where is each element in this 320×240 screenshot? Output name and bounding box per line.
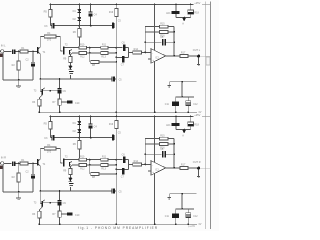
- wire R18 down': [176, 126, 191, 129]
- capacitor C3': [44, 135, 54, 140]
- label OUT L: [193, 49, 201, 52]
- wire collector to R4: [40, 35, 44, 37]
- wire V- column': [154, 173, 156, 224]
- node A junction': [183, 129, 185, 131]
- wire R19 to bias node': [115, 129, 117, 138]
- wire C8 to output column: [166, 41, 174, 43]
- wire ground rail': [39, 223, 197, 225]
- svg-text:-: -: [152, 51, 153, 55]
- wire C1 to R1': [16, 163, 20, 165]
- wire return to supply line': [181, 194, 183, 209]
- resistor R17': [180, 164, 188, 170]
- wire T3 base row': [43, 202, 58, 204]
- wire rail to R5: [49, 5, 51, 10]
- wire jack ground: [197, 58, 200, 66]
- wire C2 to gnd line: [32, 66, 34, 80]
- node supply junction': [181, 208, 183, 210]
- transistor T3': [34, 200, 45, 210]
- wire T3 base row: [43, 90, 58, 92]
- wire bus to C9: [59, 79, 61, 88]
- capacitor C7': [121, 168, 125, 179]
- wire return line: [169, 81, 196, 83]
- wire supply line': [176, 208, 194, 210]
- wire R5 to C3: [50, 17, 51, 26]
- wire R17 to jack: [188, 55, 197, 57]
- node ground-line junction': [18, 191, 20, 193]
- resistor R3: [32, 99, 41, 106]
- wire R14 to opamp: [141, 51, 151, 53]
- node A arrow': [182, 130, 186, 137]
- label OUT R': [193, 161, 201, 164]
- resistor R3': [32, 211, 41, 218]
- wire out to bus': [200, 167, 210, 169]
- wire fb row1 right: [168, 26, 174, 28]
- svg-text:R17: R17: [181, 52, 186, 55]
- resistor R4: [44, 32, 56, 41]
- wire T2 emitter down': [69, 166, 71, 168]
- node row1 tap': [89, 159, 91, 161]
- capacitor C12': [186, 209, 198, 224]
- wire taps vertical: [89, 48, 91, 62]
- node supply junction: [181, 96, 183, 98]
- wire fb row1': [145, 138, 159, 140]
- capacitor C5: [112, 20, 121, 28]
- wire LD1 down: [175, 14, 177, 18]
- capacitor T2 base bar': [63, 159, 65, 167]
- wire D3 to emitter line': [69, 187, 71, 191]
- node emitter branch: [39, 78, 41, 80]
- wire R3 to rail: [38, 98, 40, 113]
- svg-text:1V2: 1V2: [47, 152, 52, 154]
- wire opamp out': [166, 167, 180, 169]
- capacitor C12: [186, 97, 198, 112]
- node rail R19 junction: [115, 4, 117, 6]
- wire R7 to rail: [59, 105, 61, 112]
- wire T1 emitter down': [39, 166, 41, 203]
- node A arrow: [182, 18, 186, 25]
- wire jack to C1: [4, 51, 12, 53]
- wire +25V rail': [50, 116, 193, 118]
- resistor R5': [44, 122, 52, 130]
- wire fb row2: [145, 31, 159, 33]
- node return junction': [181, 193, 183, 195]
- terminal output jack': [197, 167, 200, 170]
- transistor T1: [37, 47, 46, 54]
- connector input jack: [0, 50, 3, 53]
- wire +25V rail: [50, 4, 193, 6]
- wire V+ column': [154, 117, 156, 163]
- node C2 tap: [32, 51, 34, 53]
- node fb column junctions': [173, 143, 175, 155]
- diode D2: [73, 17, 82, 21]
- transistor T2': [65, 156, 72, 167]
- wire bias to divider column: [115, 26, 117, 48]
- wire feedback column': [144, 139, 146, 165]
- wire supply bus line 2: [210, 2, 212, 230]
- wire jack ground': [197, 170, 200, 178]
- resistor R10': [79, 156, 87, 161]
- wire divider column crossover: [115, 112, 117, 117]
- wire fb row1 right': [168, 138, 174, 140]
- node A junction: [183, 17, 185, 19]
- resistor R12': [79, 164, 87, 171]
- resistor R15: [160, 22, 168, 28]
- capacitor C13': [112, 188, 122, 193]
- node divider junctions: [115, 47, 117, 63]
- wire column to C6': [116, 159, 122, 161]
- svg-text:R10: R10: [80, 156, 85, 158]
- svg-text:R19: R19: [109, 12, 114, 14]
- capacitor C9': [58, 200, 67, 205]
- wire row1 to column: [108, 47, 116, 49]
- svg-text:R11: R11: [102, 43, 107, 46]
- resistor R11': [101, 155, 108, 161]
- capacitor C2: [26, 59, 36, 67]
- connector input jack': [0, 162, 3, 165]
- node divider junctions': [115, 159, 117, 175]
- wire rail to bus': [202, 116, 211, 118]
- node base row tap': [49, 202, 51, 204]
- wire bias to R6': [78, 138, 80, 141]
- ground input': [16, 192, 21, 200]
- wire C6 to node: [125, 48, 128, 53]
- wire rail to C4: [90, 5, 92, 12]
- wire R5 to C3': [50, 129, 51, 138]
- svg-text:1V2: 1V2: [47, 40, 52, 42]
- wire C4 to bias line: [90, 17, 92, 26]
- wire C7 to node': [125, 164, 129, 169]
- wire R2 to gnd line': [18, 182, 20, 192]
- wire D2 to bias node: [78, 21, 80, 26]
- wire rail to R5': [49, 117, 51, 122]
- diode D2': [73, 129, 82, 133]
- svg-text:OUT L: OUT L: [193, 49, 201, 52]
- wire taps vertical': [89, 160, 91, 174]
- svg-text:C12: C12: [193, 104, 198, 106]
- wire T1 collector up: [39, 36, 41, 47]
- diode D1': [73, 121, 82, 125]
- wire bias to divider column': [115, 138, 117, 160]
- node bus tap': [59, 190, 61, 192]
- node C4-bias junction: [90, 25, 92, 27]
- wire emitter bus: [40, 78, 111, 80]
- wire rail to R18': [190, 117, 192, 122]
- wire rail to bus: [202, 4, 211, 6]
- node return junction: [181, 81, 183, 83]
- node row2 tap': [89, 164, 91, 166]
- capacitor C10': [61, 212, 80, 217]
- label 0V': [199, 224, 202, 226]
- wire jack to C1': [4, 163, 12, 165]
- capacitor C9: [58, 88, 67, 93]
- svg-text:R12: R12: [80, 168, 85, 170]
- wire fb row2 right': [168, 143, 174, 145]
- svg-text:R17: R17: [181, 164, 186, 167]
- resistor R6: [73, 29, 81, 38]
- transistor T3: [34, 88, 45, 98]
- wire row2 mid': [87, 164, 101, 166]
- wire R9 to D3': [69, 175, 71, 178]
- wire R18 down: [176, 14, 191, 17]
- wire R1 to T1 base': [28, 163, 37, 165]
- svg-text:+25V: +25V: [194, 113, 200, 117]
- svg-text:fig.1 - PHONO MM PREAMPLIFIER: fig.1 - PHONO MM PREAMPLIFIER: [78, 226, 158, 230]
- wire fb row2': [145, 143, 159, 145]
- node inverting input': [144, 164, 146, 166]
- capacitor C1: [12, 49, 16, 54]
- resistor R14': [133, 160, 142, 166]
- resistor R1: [20, 47, 28, 53]
- label +25V: [194, 1, 200, 5]
- resistor R1': [20, 159, 28, 165]
- resistor R16: [160, 31, 168, 38]
- wire supply bus line 1: [204, 2, 206, 230]
- wire R8 to column: [99, 61, 116, 63]
- wire row2 to column: [108, 52, 116, 54]
- resistor R6': [73, 141, 81, 150]
- resistor R4': [44, 144, 56, 153]
- wire R1 to T1 base: [28, 51, 37, 53]
- resistor R18: [188, 10, 200, 15]
- resistor R13': [101, 164, 108, 171]
- capacitor C6': [122, 154, 126, 163]
- svg-text:+25V: +25V: [194, 1, 200, 5]
- wire R4 to T2 base': [56, 148, 63, 163]
- svg-text:0V: 0V: [199, 224, 202, 226]
- resistor R14: [133, 48, 142, 54]
- wire C2 to gnd line': [32, 178, 34, 192]
- wire return to supply line: [181, 82, 183, 97]
- capacitor C13: [112, 76, 122, 81]
- capacitor C4': [89, 124, 98, 129]
- resistor R12: [79, 52, 87, 59]
- wire D2 to bias node': [78, 133, 80, 138]
- ground D3 bars: [69, 72, 74, 74]
- svg-text:R12: R12: [80, 56, 85, 58]
- wire out to bus: [200, 55, 210, 57]
- resistor R8 shunt: [91, 61, 99, 67]
- wire rail to D1': [78, 117, 80, 122]
- node bus tap: [59, 78, 61, 80]
- svg-text:LD1: LD1: [166, 124, 171, 127]
- capacitor C5': [112, 132, 121, 140]
- svg-text:R15: R15: [160, 22, 165, 25]
- capacitor C4: [89, 12, 98, 17]
- svg-text:C11: C11: [165, 104, 170, 106]
- wire T2 emitter down: [69, 54, 71, 56]
- resistor R9: [63, 57, 72, 63]
- svg-text:C10: C10: [75, 214, 80, 217]
- wire R6 to row: [78, 37, 80, 48]
- wire node to R14: [129, 51, 133, 53]
- wire LD1 down': [175, 126, 177, 130]
- svg-text:IN L: IN L: [1, 43, 6, 47]
- wire row1 mid: [87, 47, 101, 49]
- wire rail to R19: [115, 5, 117, 9]
- ground return': [168, 194, 171, 199]
- node diode-bias junction': [79, 137, 81, 139]
- wire fb cap line': [145, 153, 162, 155]
- wire column to C6: [116, 47, 122, 49]
- wire fb row1: [145, 26, 159, 28]
- svg-text:C11: C11: [165, 216, 170, 218]
- svg-text:R18: R18: [194, 124, 199, 127]
- wire rail to LD1': [175, 117, 177, 124]
- label IN R': [1, 155, 6, 159]
- wire column to C7: [116, 56, 122, 58]
- wire fb cap line: [145, 41, 162, 43]
- node row1 tap: [89, 47, 91, 49]
- wire T1 collector up': [39, 148, 41, 159]
- transistor T1': [37, 159, 46, 166]
- wire R14 to opamp': [141, 163, 151, 165]
- node output junction': [173, 167, 175, 169]
- wire C1 to R1: [16, 51, 20, 53]
- node feedback junctions: [144, 41, 146, 43]
- wire divider column': [115, 160, 117, 225]
- wire ground rail: [39, 111, 197, 113]
- resistor R8 shunt': [91, 173, 99, 179]
- wire R4 to T2 base: [56, 36, 63, 51]
- wire tap to R2: [18, 52, 20, 62]
- wire feedback column: [144, 27, 146, 53]
- wire R9 to D3: [69, 63, 71, 66]
- wire divider column: [115, 48, 117, 113]
- resistor R19: [109, 9, 118, 17]
- resistor R18': [188, 122, 200, 127]
- capacitor C1': [12, 161, 16, 166]
- svg-text:R13: R13: [101, 55, 106, 58]
- resistor R17: [180, 52, 188, 58]
- node R2 tap': [18, 163, 20, 165]
- wire opamp out: [166, 55, 180, 57]
- label IN L: [1, 43, 6, 47]
- capacitor C2': [26, 171, 36, 179]
- svg-text:R18: R18: [194, 12, 199, 15]
- node output junction: [173, 55, 175, 57]
- capacitor C11: [165, 97, 179, 112]
- node diode-bias junction: [79, 25, 81, 27]
- wire rail to C4': [90, 117, 92, 124]
- svg-text:C12: C12: [193, 216, 198, 218]
- op-amp IC1: [151, 49, 166, 64]
- wire T2 collector row: [65, 47, 79, 49]
- wire supply line: [176, 96, 194, 98]
- resistor R16': [160, 143, 168, 150]
- wire C7 to node: [125, 52, 129, 57]
- resistor R5: [44, 10, 52, 18]
- wire C8 to output column': [166, 153, 174, 155]
- resistor R19': [109, 121, 118, 129]
- resistor bus divider: [206, 57, 209, 65]
- svg-text:p-e/99: p-e/99: [188, 225, 195, 228]
- label +25V': [194, 113, 200, 117]
- wire V+ column: [154, 5, 156, 51]
- wire R17 to jack': [188, 167, 197, 169]
- wire R8 to column': [99, 173, 116, 175]
- resistor R10: [79, 44, 87, 49]
- wire noninverting stub: [148, 58, 151, 60]
- resistor R7': [52, 211, 61, 217]
- wire tap to R2': [18, 164, 20, 174]
- node R2 tap: [18, 51, 20, 53]
- wire noninverting stub': [148, 170, 151, 172]
- diode D3: [69, 66, 73, 70]
- ground D3 bars': [69, 184, 74, 186]
- wire C6 to node': [125, 160, 128, 165]
- op-amp IC1': [151, 161, 166, 176]
- diode D1: [73, 9, 82, 13]
- node C2 tap': [32, 163, 34, 165]
- wire T1 emitter down: [39, 54, 41, 91]
- node rail junctions: [50, 4, 192, 6]
- wire node to R14': [129, 163, 133, 165]
- resistor R11: [101, 43, 108, 49]
- wire bus to C9': [59, 191, 61, 200]
- capacitor T2 base bar: [63, 47, 65, 55]
- node C4-bias junction': [90, 137, 92, 139]
- transistor T2: [65, 44, 72, 55]
- svg-text:LD1: LD1: [166, 12, 171, 15]
- node inverting input: [144, 52, 146, 54]
- svg-text:R19: R19: [109, 124, 114, 126]
- wire R2 to gnd line: [18, 70, 20, 80]
- resistor R2: [12, 61, 21, 70]
- wire row2 mid: [87, 52, 101, 54]
- wire bias line: [55, 25, 113, 27]
- wire fb output column': [173, 139, 175, 168]
- diode D3': [69, 178, 73, 182]
- capacitor C3: [44, 23, 54, 28]
- wire rail to LD1: [175, 5, 177, 12]
- wire D3 to emitter line: [69, 75, 71, 79]
- wire input ground line: [3, 53, 33, 80]
- wire row1 mid': [87, 159, 101, 161]
- resistor R7: [52, 99, 61, 105]
- node ground-line junction: [18, 79, 20, 81]
- capacitor C11': [165, 209, 179, 224]
- wire collector to R4': [40, 147, 44, 149]
- caption figure title: [78, 226, 158, 230]
- svg-text:R11: R11: [102, 155, 107, 158]
- wire T2 emitter row': [72, 164, 79, 166]
- wire rail to R18: [190, 5, 192, 10]
- LED LD1': [166, 123, 179, 127]
- wire T2 collector row': [65, 159, 79, 161]
- node feedback junctions': [144, 153, 146, 155]
- wire R6 to row': [78, 149, 80, 160]
- terminal output jack: [197, 55, 200, 58]
- wire row2 to column': [108, 164, 116, 166]
- wire C9 to R7': [59, 206, 61, 211]
- wire bias to R6: [78, 26, 80, 29]
- terminal input pad: [0, 53, 2, 57]
- wire R19 to bias node: [115, 17, 117, 26]
- wire T2 emitter row: [72, 52, 79, 54]
- wire return line': [169, 193, 196, 195]
- node fb column junctions: [173, 31, 175, 43]
- node base row tap: [49, 90, 51, 92]
- node row2 tap: [89, 52, 91, 54]
- terminal input pad': [0, 165, 2, 169]
- wire tap to C2: [32, 52, 34, 63]
- resistor R9': [63, 169, 72, 175]
- label 0V: [199, 112, 202, 114]
- wire fb row2 right: [168, 31, 174, 33]
- capacitor C10: [61, 100, 80, 105]
- svg-text:R13: R13: [101, 167, 106, 170]
- capacitor C8': [160, 149, 166, 158]
